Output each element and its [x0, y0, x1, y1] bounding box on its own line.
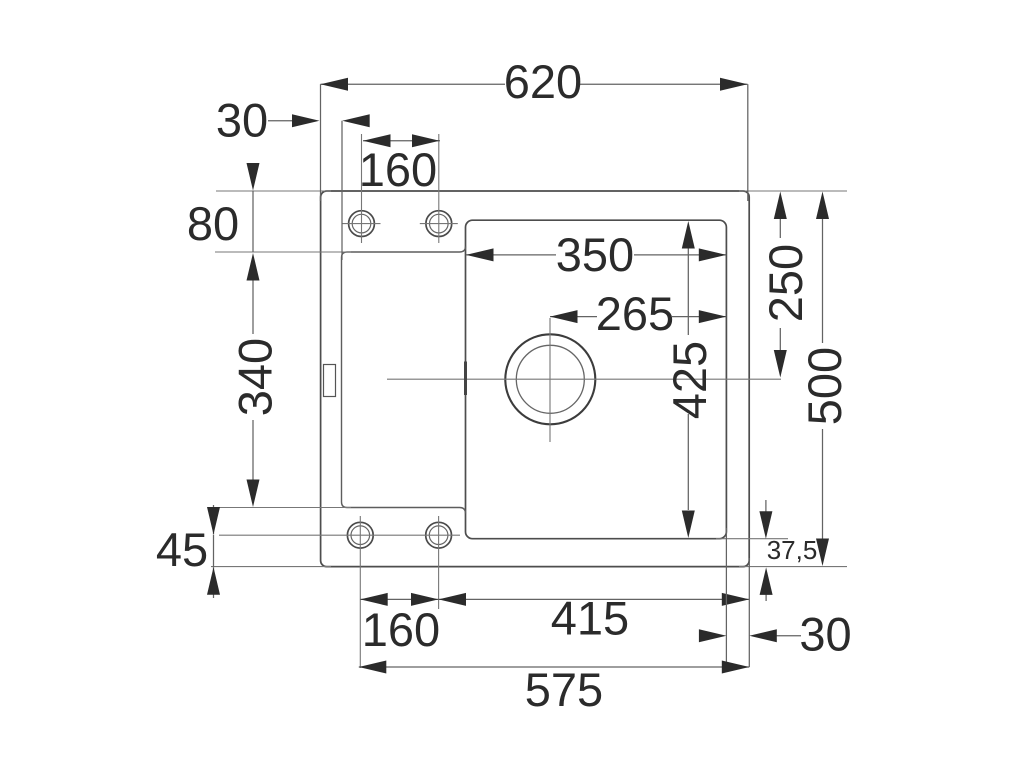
- dimension 265: [550, 316, 726, 318]
- svg-text:350: 350: [556, 228, 634, 281]
- svg-text:30: 30: [799, 608, 851, 661]
- bottom holes centre line: [219, 534, 460, 536]
- svg-text:37,5: 37,5: [767, 535, 818, 565]
- svg-text:500: 500: [798, 347, 851, 425]
- tap hole T2: [420, 134, 458, 243]
- drainer: [342, 247, 466, 514]
- drainer top extension line: [215, 251, 351, 253]
- svg-text:340: 340: [229, 338, 282, 416]
- dimension 37,5: [765, 500, 767, 601]
- svg-text:250: 250: [759, 244, 812, 322]
- sink outline: [321, 191, 750, 567]
- dimension 250: [779, 219, 781, 351]
- bottom edge extension line: [211, 566, 847, 568]
- tap hole T1: [342, 134, 381, 243]
- drain hole: [387, 318, 781, 442]
- main bowl: [466, 220, 727, 539]
- drainer bottom extension line: [208, 507, 351, 509]
- svg-text:80: 80: [187, 197, 239, 250]
- svg-text:425: 425: [663, 341, 716, 419]
- dimension 575: [359, 666, 750, 668]
- dimension 425: [687, 248, 689, 510]
- svg-text:30: 30: [216, 94, 268, 147]
- overflow slot: [324, 365, 336, 397]
- svg-text:45: 45: [156, 523, 208, 576]
- dimension 30 top: [268, 121, 342, 260]
- dimension 500: [822, 219, 824, 540]
- tap hole B2: [426, 516, 452, 609]
- dimension 350: [466, 254, 726, 256]
- svg-text:160: 160: [359, 143, 437, 196]
- svg-text:575: 575: [525, 663, 603, 716]
- dimension 30 bottom: [726, 528, 801, 667]
- svg-text:265: 265: [596, 287, 674, 340]
- svg-text:620: 620: [504, 55, 582, 108]
- dimension 620: [321, 84, 748, 201]
- dimension 45: [213, 505, 215, 598]
- tap hole B1: [347, 516, 373, 668]
- dimension 160 top: [363, 140, 440, 142]
- svg-text:160: 160: [362, 603, 440, 656]
- svg-text:415: 415: [551, 592, 629, 645]
- bowl bottom extension line: [716, 538, 788, 540]
- dimension 80: [252, 191, 254, 253]
- top edge extension line: [216, 190, 847, 192]
- dimension 340: [252, 280, 254, 480]
- dimension 160 bottom and 415: [360, 598, 749, 600]
